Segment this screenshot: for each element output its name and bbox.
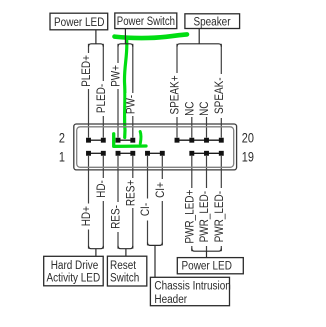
label SPEAK+ on wire c7 <box>169 73 182 117</box>
pin 7 square <box>130 151 135 156</box>
label PWR_LED- on wire c10 <box>213 188 226 246</box>
svg-text:NC: NC <box>184 101 197 116</box>
pin 17 square <box>204 151 209 156</box>
svg-text:HD+: HD+ <box>81 206 94 226</box>
svg-text:PWR_LED-: PWR_LED- <box>199 191 212 243</box>
svg-text:Hard Drive: Hard Drive <box>51 259 99 272</box>
label CI+ on wire c6 <box>154 179 167 201</box>
pin 8 square <box>130 138 135 143</box>
svg-text:PLED-: PLED- <box>95 83 108 113</box>
wire PLED- column c2 top <box>102 44 104 138</box>
pin 5 square <box>116 151 121 156</box>
pin 14 square <box>175 138 180 143</box>
bracket from CI wires to Chassis Intrusion Header box <box>148 243 163 278</box>
svg-text:Power LED: Power LED <box>54 16 105 29</box>
box Hard Drive Activity LED (bottom) <box>44 256 103 286</box>
green highlighter vertical curve down to PW pins <box>124 39 126 138</box>
svg-text:Switch: Switch <box>110 272 139 285</box>
pin pair link PLED+/PLED- top row <box>89 139 104 141</box>
pin 4 square <box>101 138 106 143</box>
svg-text:PW-: PW- <box>125 95 138 115</box>
svg-text:RES+: RES+ <box>125 180 138 206</box>
bracket from RES wires to Reset Switch box <box>118 246 133 257</box>
wire NC column c8 top (short, label to pin) <box>191 117 193 138</box>
pin 19 square <box>219 151 224 156</box>
wire NC column c9 top (short, label to pin) <box>206 117 208 138</box>
svg-text:PWR_LED-: PWR_LED- <box>213 191 226 243</box>
label SPEAK- on wire c10 <box>213 74 226 118</box>
svg-text:Chassis Intrusion: Chassis Intrusion <box>154 280 230 293</box>
pin pair link CI-/CI+ bottom row <box>148 152 163 154</box>
svg-text:19: 19 <box>242 149 254 165</box>
connector F_PANEL header inner body <box>77 127 234 168</box>
svg-text:CI-: CI- <box>140 202 153 216</box>
bracket from HD wires to Hard Drive Activity LED box <box>89 246 104 257</box>
bracket from Power Switch box to PW wires <box>118 29 133 47</box>
svg-text:Activity LED: Activity LED <box>46 272 100 285</box>
wire PW- column c4 top <box>132 44 134 138</box>
bracket from PWR_LED wires to bottom Power LED box <box>192 248 222 257</box>
svg-text:Reset: Reset <box>110 259 136 272</box>
svg-text:NC: NC <box>199 101 212 116</box>
svg-text:1: 1 <box>59 149 65 165</box>
box Speaker (top) <box>185 14 240 29</box>
pin pair link HD+/HD- bottom row <box>89 152 104 154</box>
wire HD- column c2 bottom <box>102 156 104 249</box>
label PWR_LED+ on wire c8 <box>184 188 197 246</box>
label HD- on wire c2 <box>95 178 108 201</box>
wire PWR_LED+ column c8 bottom <box>191 156 193 251</box>
pin 11 square <box>160 151 165 156</box>
connector F_PANEL header outer body <box>74 124 237 170</box>
label CI- on wire c5 <box>140 199 153 221</box>
label PW+ on wire c3 <box>110 63 123 89</box>
pin pair link RES-/RES+ bottom row <box>118 152 133 154</box>
label RES+ on wire c4 <box>125 178 138 208</box>
label PWR_LED- on wire c9 <box>199 188 212 246</box>
wire RES- column c3 bottom <box>117 156 119 249</box>
svg-text:PWR_LED+: PWR_LED+ <box>184 190 197 244</box>
label RES- on wire c3 <box>110 202 123 232</box>
wire HD+ column c1 bottom <box>88 156 90 249</box>
wire CI+ column c6 bottom <box>161 156 163 246</box>
label HD+ on wire c1 <box>81 204 94 230</box>
label PLED- on wire c2 <box>95 81 108 116</box>
svg-text:CI+: CI+ <box>154 182 167 198</box>
box Power LED (top) <box>50 13 108 30</box>
pin link PWR_LED group bottom row <box>192 152 222 154</box>
label NC on wire c8 <box>184 100 197 117</box>
wire PLED+ column c1 top <box>88 44 90 138</box>
pin 2 square <box>86 138 91 143</box>
svg-text:20: 20 <box>242 130 254 146</box>
wire PWR_LED- column c9 bottom <box>206 156 208 251</box>
pin 9 square <box>145 151 150 156</box>
label PW- on wire c4 <box>125 93 138 116</box>
wire SPEAK+ column c7 top <box>176 44 178 138</box>
pin 1 square <box>86 151 91 156</box>
wire PW+ column c3 top <box>117 44 119 138</box>
green highlighter underline with left tick below PW pins <box>114 134 146 147</box>
svg-text:PW+: PW+ <box>110 65 123 87</box>
wire PWR_LED- column c10 bottom <box>220 156 222 251</box>
svg-text:SPEAK-: SPEAK- <box>213 77 226 114</box>
svg-text:2: 2 <box>59 130 65 146</box>
green highlighter comma tick right of PW- pin <box>139 132 143 144</box>
pin 18 square <box>204 138 209 143</box>
svg-text:RES-: RES- <box>110 205 123 229</box>
box Power LED (bottom right) <box>177 258 243 274</box>
svg-text:Speaker: Speaker <box>193 16 230 29</box>
bracket from Power LED box to PLED wires <box>89 30 104 47</box>
box Power Switch (top) <box>115 13 177 29</box>
pin 3 square <box>101 151 106 156</box>
box Chassis Intrusion Header (bottom) <box>150 277 230 306</box>
svg-text:SPEAK+: SPEAK+ <box>169 75 182 114</box>
wire RES+ column c4 bottom <box>132 156 134 249</box>
green highlighter stroke under Power Switch box <box>115 34 188 38</box>
svg-text:PLED+: PLED+ <box>81 55 94 87</box>
pin 20 square <box>219 138 224 143</box>
svg-text:Power Switch: Power Switch <box>117 15 175 28</box>
box Reset Switch (bottom) <box>107 256 146 286</box>
svg-text:Power LED: Power LED <box>182 260 233 273</box>
bracket from Speaker box to SPEAK wires <box>177 29 221 47</box>
svg-text:Header: Header <box>154 294 187 307</box>
pin 15 square <box>189 151 194 156</box>
pin 6 square <box>116 138 121 143</box>
pin link SPEAK+/NC/NC/SPEAK- top row <box>177 139 221 141</box>
pin 16 square <box>189 138 194 143</box>
svg-text:HD-: HD- <box>95 180 108 198</box>
wire CI- column c5 bottom <box>147 156 149 246</box>
pin pair link PW+/PW- top row <box>118 139 133 141</box>
label NC on wire c9 <box>199 100 212 117</box>
wire SPEAK- column c10 top <box>220 44 222 138</box>
label PLED+ on wire c1 <box>81 53 94 89</box>
